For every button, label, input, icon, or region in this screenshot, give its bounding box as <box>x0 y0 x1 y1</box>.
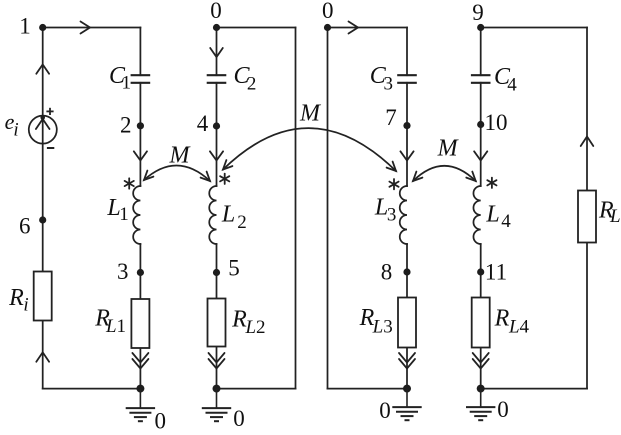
svg-text:i: i <box>23 294 28 315</box>
svg-text:4: 4 <box>507 75 517 96</box>
svg-text:6: 6 <box>19 214 31 239</box>
svg-text:9: 9 <box>472 0 484 25</box>
svg-text:3: 3 <box>387 205 397 226</box>
svg-text:L3: L3 <box>372 316 393 337</box>
svg-text:M: M <box>437 135 460 161</box>
svg-text:i: i <box>13 120 18 141</box>
svg-text:0: 0 <box>497 397 509 422</box>
svg-text:0: 0 <box>233 406 245 431</box>
svg-text:L: L <box>221 202 235 228</box>
svg-text:0: 0 <box>155 409 167 434</box>
svg-text:7: 7 <box>385 105 397 130</box>
svg-text:10: 10 <box>485 110 508 135</box>
svg-text:M: M <box>169 142 192 168</box>
svg-text:2: 2 <box>237 212 247 233</box>
svg-text:3: 3 <box>117 259 129 284</box>
svg-text:1: 1 <box>121 73 131 94</box>
svg-text:4: 4 <box>197 111 209 136</box>
svg-text:4: 4 <box>501 211 511 232</box>
svg-text:L1: L1 <box>105 316 126 337</box>
svg-text:8: 8 <box>381 260 393 285</box>
svg-text:1: 1 <box>119 204 129 225</box>
svg-text:0: 0 <box>322 0 334 23</box>
svg-text:M: M <box>299 101 322 127</box>
svg-text:L: L <box>609 206 621 227</box>
svg-text:R: R <box>8 285 24 311</box>
svg-text:0: 0 <box>379 398 391 423</box>
svg-text:0: 0 <box>210 0 222 23</box>
svg-text:1: 1 <box>19 14 31 39</box>
svg-text:2: 2 <box>120 113 132 138</box>
svg-text:L: L <box>485 202 499 228</box>
svg-text:L2: L2 <box>244 317 265 338</box>
svg-text:5: 5 <box>228 256 240 281</box>
svg-text:R: R <box>494 306 510 332</box>
svg-text:2: 2 <box>247 74 257 95</box>
svg-text:L4: L4 <box>508 316 530 337</box>
svg-text:3: 3 <box>384 74 394 95</box>
svg-text:11: 11 <box>485 260 507 285</box>
